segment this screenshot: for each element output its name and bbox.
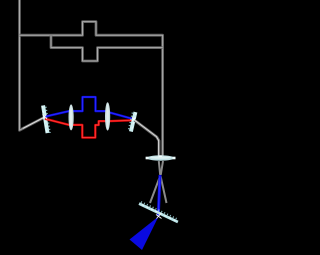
lens L3 (horizontal focusing lens) — [146, 155, 176, 160]
ray cone below lens L3 (crossing at focus) — [150, 161, 167, 203]
lens L2 (vertical) — [105, 102, 110, 130]
beam: blue path grating G1 to lens L1 to crossover to lens L2 to grating G2 — [45, 97, 134, 119]
grating G3 (tilted sample plate at focus) — [138, 201, 178, 223]
wire: top branch, upper run with up-bump, corner down to right bus — [20, 22, 163, 156]
wire: lower run with down-bump, tee into right bus — [51, 35, 163, 61]
sparkle at grating G2 contact — [132, 118, 136, 122]
beam: blue diffracted wedge from sample — [130, 217, 159, 251]
sparkle at grating G3 contact — [156, 214, 162, 219]
beam: red path grating G1 to lens L1 to under-bump, step up, lens L2 to grating G2 — [45, 119, 134, 138]
sparkle at grating G1 contact — [43, 115, 48, 120]
lens L1 (vertical) — [69, 104, 74, 130]
beam: blue focused beam to sample — [158, 175, 160, 216]
wire: left vertical bus with elbow to grating G1 — [20, 0, 46, 130]
wire: gray output beam from grating G2, elbow down to lens L3 — [135, 120, 160, 157]
grating G2 (tilted serrated plate, right) — [128, 111, 137, 132]
grating G1 (tilted serrated plate, left) — [41, 105, 50, 134]
